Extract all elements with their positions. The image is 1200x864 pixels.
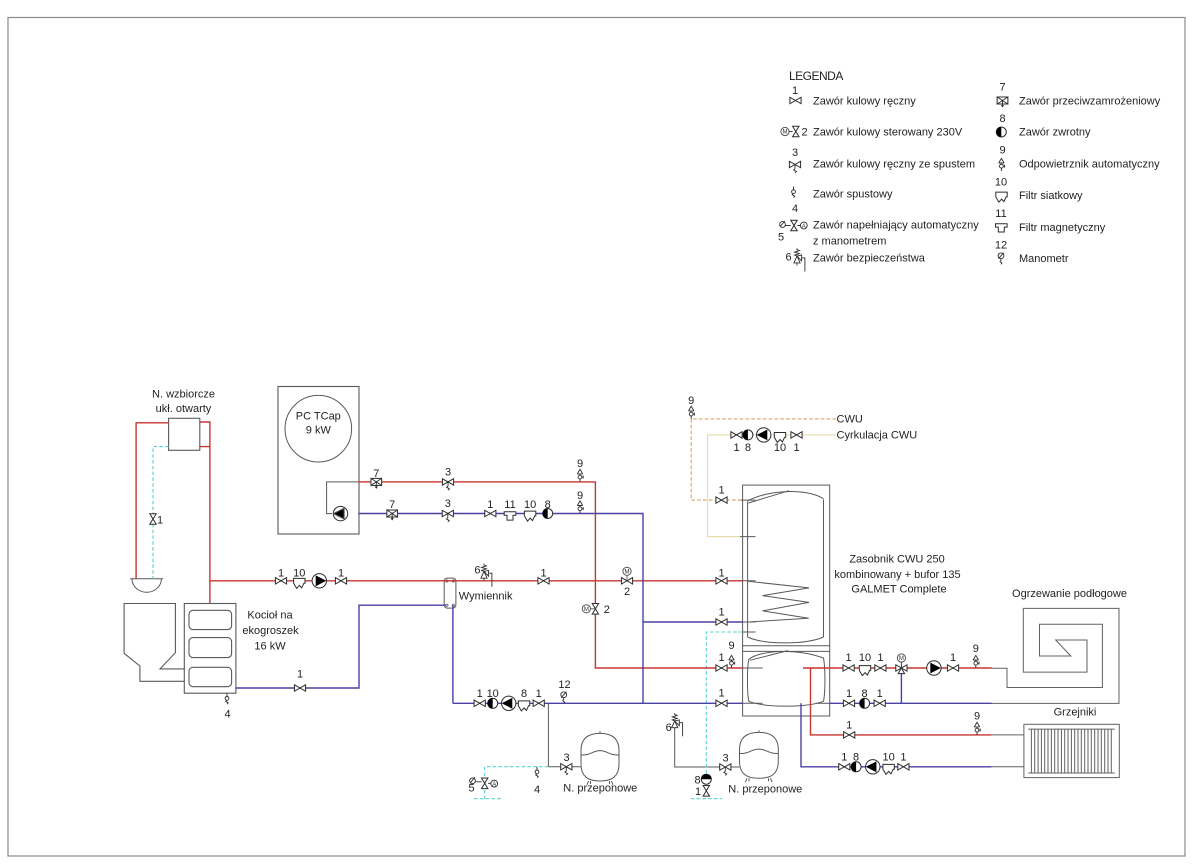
drain valve 4 on fill line	[535, 767, 539, 778]
svg-text:9: 9	[999, 145, 1005, 157]
svg-text:kombinowany + bufor 135: kombinowany + bufor 135	[834, 569, 960, 581]
orange pipe: CWU hot water line	[691, 419, 836, 500]
svg-text:1: 1	[877, 652, 883, 664]
drain valve 4 under boiler	[225, 693, 229, 704]
svg-text:11: 11	[995, 208, 1006, 220]
svg-text:Zawór zwrotny: Zawór zwrotny	[1019, 127, 1091, 139]
svg-text:4: 4	[224, 709, 230, 721]
cyan pipe: fill line with valve set	[474, 767, 548, 799]
svg-text:9 kW: 9 kW	[306, 425, 332, 437]
svg-text:3: 3	[723, 753, 729, 765]
gray pipe: safety valve drop to expansion vessel 2	[675, 730, 740, 767]
air vent 9 on buffer inlet	[729, 655, 735, 668]
svg-text:5: 5	[778, 232, 784, 244]
coal hopper	[124, 604, 184, 682]
svg-text:Manometr: Manometr	[1019, 253, 1069, 265]
valve 1 on heat pump return	[485, 510, 496, 516]
legend item 8: zawór zwrotny	[996, 113, 1091, 139]
valve 1 on radiator return right	[898, 764, 909, 770]
mesh filter 10 on circulation line	[774, 433, 785, 443]
valve 1 on open vessel fill line	[150, 514, 156, 525]
svg-text:1: 1	[792, 85, 798, 97]
svg-text:10: 10	[882, 751, 894, 763]
svg-text:N. przeponowe: N. przeponowe	[563, 783, 637, 795]
gray pipe: tee to expansion vessel 1	[548, 766, 581, 768]
svg-text:Zawór kulowy ręczny ze spustem: Zawór kulowy ręczny ze spustem	[813, 159, 975, 171]
svg-text:1: 1	[718, 688, 724, 700]
legend item 1: zawór kulowy ręczny	[790, 85, 916, 108]
svg-text:8: 8	[999, 113, 1005, 125]
overflow dish	[130, 579, 163, 593]
svg-text:Zasobnik CWU 250: Zasobnik CWU 250	[849, 554, 944, 566]
valve 1 on floor return	[843, 700, 854, 706]
combi tank outer shell	[743, 485, 830, 716]
svg-text:Filtr siatkowy: Filtr siatkowy	[1019, 190, 1083, 202]
fill set connections	[475, 782, 490, 784]
svg-text:PC TCap: PC TCap	[296, 411, 341, 423]
svg-text:3: 3	[792, 147, 798, 159]
svg-text:CWU: CWU	[837, 414, 863, 426]
expansion vessel 2 (N. przeponowe)	[740, 730, 779, 782]
svg-text:Zawór napełniający automatyczn: Zawór napełniający automatyczny	[813, 220, 979, 232]
svg-text:2: 2	[624, 586, 630, 598]
air vent 9 on floor supply	[973, 655, 979, 668]
svg-text:9: 9	[577, 458, 583, 470]
svg-text:6: 6	[785, 252, 791, 264]
fill set valve	[482, 778, 488, 789]
svg-text:8: 8	[521, 688, 527, 700]
legend item 10: filtr siatkowy	[995, 177, 1083, 203]
svg-text:Wymiennik: Wymiennik	[459, 591, 513, 603]
mesh filter 10 on radiator return	[883, 764, 894, 774]
red pipe: buffer outlet down to radiators	[811, 668, 992, 735]
valve 1 on floor return at mix	[874, 700, 885, 706]
svg-text:8: 8	[745, 442, 751, 454]
svg-text:N. przeponowe: N. przeponowe	[728, 784, 802, 796]
motor valve 2 on supply	[621, 567, 632, 584]
svg-text:Zawór spustowy: Zawór spustowy	[813, 189, 893, 201]
svg-text:9: 9	[577, 490, 583, 502]
svg-text:1: 1	[536, 688, 542, 700]
legend item 11: filtr magnetyczny	[995, 208, 1105, 234]
red pipe: heat pump supply loop down to buffer	[358, 482, 742, 668]
svg-text:10: 10	[859, 652, 871, 664]
svg-text:1: 1	[297, 669, 303, 681]
tank nozzle stubs	[739, 500, 832, 703]
svg-text:ukł. otwarty: ukł. otwarty	[156, 403, 212, 415]
svg-text:1: 1	[278, 567, 284, 579]
check valve 8 on heat pump return	[543, 509, 553, 519]
svg-text:11: 11	[504, 499, 515, 511]
boiler door 1	[189, 610, 232, 629]
svg-text:2: 2	[801, 127, 807, 139]
air vent 9 on CWU line	[689, 406, 695, 419]
safety valve 6 at exchanger	[481, 564, 492, 587]
svg-text:10: 10	[524, 499, 536, 511]
svg-text:2: 2	[604, 604, 610, 616]
drain valve 3 at expansion vessel 1	[561, 764, 572, 776]
svg-text:3: 3	[563, 752, 569, 764]
main return pump	[502, 696, 516, 710]
svg-text:1: 1	[338, 567, 344, 579]
valve 1 on cold feed	[703, 786, 709, 797]
mesh filter 10 on boiler supply	[294, 578, 305, 588]
legend item 9: odpowietrznik automatyczny	[999, 145, 1160, 172]
legend item 7: zawór przeciwzamrożeniowy	[997, 82, 1161, 108]
svg-text:Zawór przeciwzamrożeniowy: Zawór przeciwzamrożeniowy	[1019, 96, 1161, 108]
svg-text:Odpowietrznik automatyczny: Odpowietrznik automatyczny	[1019, 159, 1160, 171]
anti-freeze valve 7 on heat pump supply	[371, 478, 382, 488]
expansion vessel 1 (N. przeponowe)	[581, 731, 619, 785]
check valve 8 on main return	[488, 698, 498, 708]
drain valve 3 at expansion vessel 2	[720, 764, 731, 776]
fill set gauge	[470, 777, 476, 784]
valve 1 on tank coil outlet	[716, 619, 727, 625]
svg-text:3: 3	[445, 467, 451, 479]
mesh filter 10 on floor heating supply	[859, 666, 870, 676]
heating coil inside upper tank	[748, 581, 809, 622]
svg-text:9: 9	[974, 711, 980, 723]
red pipe: open vessel right riser to boiler	[200, 422, 210, 603]
svg-text:1: 1	[477, 688, 483, 700]
svg-text:1: 1	[846, 688, 852, 700]
svg-text:1: 1	[841, 751, 847, 763]
blue pipe: main return line to buffer	[453, 702, 743, 704]
legend item 6: zawór bezpieczeństwa	[785, 248, 925, 271]
svg-text:9: 9	[728, 640, 734, 652]
svg-text:1: 1	[877, 688, 883, 700]
valve 1 on buffer inlet	[716, 665, 727, 671]
radiator fins	[1031, 729, 1111, 773]
svg-text:7: 7	[999, 82, 1005, 94]
manometer 12 on main return	[561, 692, 567, 704]
svg-text:9: 9	[688, 395, 694, 407]
svg-text:6: 6	[474, 565, 480, 577]
svg-text:GALMET Complete: GALMET Complete	[851, 584, 946, 596]
gray pipe: radiator return tail	[991, 766, 1024, 768]
svg-text:5: 5	[468, 783, 474, 795]
valve 1 on main return right	[533, 700, 544, 706]
valve 1 on radiator return	[839, 764, 850, 770]
blue pipe: heat pump return riser	[358, 514, 742, 704]
valve 1 before mixing valve	[875, 665, 886, 671]
svg-text:1: 1	[793, 442, 799, 454]
cyan pipe: open-vessel fill line down to dish	[153, 447, 169, 579]
svg-text:1: 1	[733, 442, 739, 454]
svg-text:Grzejniki: Grzejniki	[1054, 707, 1097, 719]
svg-text:6: 6	[666, 722, 672, 734]
red pipe: buffer outlet to floor heating	[803, 667, 992, 669]
air vent 9 on heat pump return	[577, 501, 583, 514]
valve 1 on CWU tank outlet	[716, 497, 727, 503]
valve 1 on supply before tank	[538, 578, 549, 584]
svg-text:1: 1	[846, 720, 852, 732]
valve 1 at tank coil inlet	[716, 578, 727, 584]
motor valve 2 on heat pump riser	[582, 604, 598, 615]
heat pump fan circle	[285, 395, 352, 462]
valve 1 on main return	[474, 700, 485, 706]
svg-text:1: 1	[487, 499, 493, 511]
legend item 4: zawór spustowy	[792, 187, 893, 216]
blue pipe: boiler return via exchanger	[236, 605, 453, 703]
legend item 2: zawór kulowy sterowany 230V	[781, 126, 963, 138]
check valve 8 on radiator return	[851, 762, 861, 772]
svg-text:4: 4	[792, 203, 798, 215]
svg-text:1: 1	[950, 652, 956, 664]
valve 1 after floor pump	[947, 665, 958, 671]
circulation pump on boiler supply	[312, 574, 326, 588]
svg-text:10: 10	[293, 567, 305, 579]
valve 1 on radiator supply	[844, 732, 855, 738]
svg-text:8: 8	[545, 499, 551, 511]
gray pipe: drop from return main to expansion vessel 1 tee	[547, 703, 549, 766]
svg-text:12: 12	[995, 240, 1007, 252]
red pipe: main boiler supply to tank coil	[210, 580, 743, 582]
legend item 5: zawór napełniający automatyczny z manometrem	[778, 220, 979, 248]
boiler body (kocioł)	[184, 604, 236, 694]
svg-text:z manometrem: z manometrem	[813, 236, 886, 248]
circulation pump CWU	[757, 428, 771, 442]
svg-text:3: 3	[445, 498, 451, 510]
check valve 8 on floor return	[860, 698, 870, 708]
air vent 9 on radiator supply	[974, 722, 980, 735]
svg-text:1: 1	[900, 751, 906, 763]
valve 1 on boiler return	[294, 685, 305, 691]
fill set A circle	[491, 780, 498, 788]
legend item 12: manometr	[995, 240, 1069, 266]
valve 1 on buffer return inlet	[716, 700, 727, 706]
svg-text:1: 1	[846, 652, 852, 664]
svg-text:1: 1	[540, 567, 546, 579]
svg-text:10: 10	[995, 177, 1007, 189]
svg-text:8: 8	[853, 751, 859, 763]
svg-text:10: 10	[487, 688, 499, 700]
svg-text:N. wzbiorcze: N. wzbiorcze	[152, 389, 215, 401]
drain valve 3 on heat pump return	[442, 510, 453, 522]
valve 1 after boiler pump	[335, 578, 346, 584]
svg-text:1: 1	[718, 607, 724, 619]
valve 1 on floor heating supply	[843, 665, 854, 671]
heat pump internal pump	[333, 506, 347, 520]
radiator return pump	[866, 760, 880, 774]
svg-text:7: 7	[389, 499, 395, 511]
gray pipe: radiator supply tail	[991, 734, 1024, 736]
valve 1 on boiler supply	[275, 578, 286, 584]
svg-text:16 kW: 16 kW	[254, 641, 286, 653]
lower buffer inner vessel	[747, 651, 824, 707]
svg-text:Zawór bezpieczeństwa: Zawór bezpieczeństwa	[813, 253, 926, 265]
3-way mixing valve with actuator	[896, 654, 907, 674]
svg-text:Filtr magnetyczny: Filtr magnetyczny	[1019, 222, 1106, 234]
mesh filter 10 on main return	[518, 701, 529, 711]
svg-text:1: 1	[718, 652, 724, 664]
magnetic filter 11 on heat pump return	[504, 512, 516, 520]
valve 1 on circulation line right	[791, 432, 802, 438]
blue pipe: buffer return from floor heating	[830, 673, 992, 704]
plate heat exchanger (Wymiennik)	[444, 578, 456, 608]
svg-text:LEGENDA: LEGENDA	[789, 69, 843, 83]
red pipe: open vessel left drop to dish	[136, 423, 169, 579]
svg-text:8: 8	[862, 688, 868, 700]
svg-text:8: 8	[694, 775, 700, 787]
heat pump PC TCap box	[278, 387, 359, 535]
svg-text:Zawór kulowy ręczny: Zawór kulowy ręczny	[813, 96, 916, 108]
boiler door 3	[189, 667, 232, 686]
svg-text:1: 1	[718, 485, 724, 497]
anti-freeze valve 7 on heat pump return	[387, 510, 398, 520]
floor heating spiral	[991, 608, 1119, 703]
expansion tank open system (N. wzbiorcze) box	[169, 418, 200, 450]
svg-text:1: 1	[718, 567, 724, 579]
valve 1 on circulation line	[731, 432, 742, 438]
blue pipe: radiator return into buffer	[801, 703, 991, 767]
air vent 9 on heat pump supply	[577, 469, 583, 482]
check valve 8 on cold feed	[701, 774, 711, 784]
check valve 8 on circulation line	[743, 430, 753, 440]
heat pump hydraulic module box	[327, 482, 359, 514]
svg-text:7: 7	[373, 468, 379, 480]
boiler door 2	[189, 638, 232, 658]
pale yellow pipe: CWU circulation line	[708, 435, 836, 537]
cyan pipe: cold water feed to tank	[691, 632, 743, 799]
svg-text:ekogroszek: ekogroszek	[242, 625, 299, 637]
upper tank inner vessel	[748, 491, 824, 643]
svg-text:1: 1	[695, 786, 701, 798]
legend item 3: zawór kulowy ręczny ze spustem	[789, 147, 975, 173]
drain valve 3 on heat pump supply	[442, 479, 453, 491]
svg-text:9: 9	[973, 643, 979, 655]
radiator (Grzejniki)	[1024, 724, 1119, 777]
mesh filter 10 on heat pump return	[524, 511, 535, 521]
svg-text:Ogrzewanie podłogowe: Ogrzewanie podłogowe	[1012, 588, 1127, 600]
svg-text:Zawór kulowy sterowany 230V: Zawór kulowy sterowany 230V	[813, 127, 963, 139]
svg-text:10: 10	[774, 442, 786, 454]
safety valve 6 at expansion vessel 2	[672, 713, 683, 736]
svg-text:12: 12	[558, 679, 570, 691]
svg-text:1: 1	[157, 515, 163, 527]
svg-text:Cyrkulacja CWU: Cyrkulacja CWU	[837, 430, 918, 442]
svg-text:4: 4	[534, 784, 540, 796]
svg-text:Kocioł na: Kocioł na	[247, 610, 293, 622]
floor heating pump	[927, 661, 941, 675]
